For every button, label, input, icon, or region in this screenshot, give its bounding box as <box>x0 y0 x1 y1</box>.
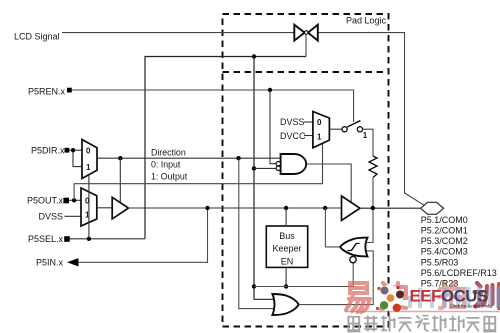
node direction/OR branch <box>236 156 240 160</box>
bubble schmitt enable <box>350 256 356 262</box>
svg-text:P5.3/COM2: P5.3/COM2 <box>421 236 468 246</box>
wire P5OUT to mux <box>69 199 81 201</box>
hysteresis symbol <box>348 243 360 250</box>
svg-text:DVSS: DVSS <box>39 212 64 222</box>
svg-text:1: 1 <box>317 133 322 142</box>
wire DVSS into mux <box>304 121 313 123</box>
watermark logo balls <box>376 286 404 312</box>
wire driver to pad <box>360 207 421 209</box>
watermark bottom row char 8 <box>466 318 479 332</box>
svg-text:1: Output: 1: Output <box>151 172 188 182</box>
svg-text:EN: EN <box>281 256 294 266</box>
watermark bottom row char 4 <box>398 318 411 332</box>
wire P5IN line <box>78 208 208 262</box>
wire OR output feedback <box>299 251 373 305</box>
svg-text:P5SEL.x: P5SEL.x <box>28 234 64 244</box>
dashed outer box (pad logic boundary) <box>223 14 389 327</box>
node P5IN tap <box>205 206 209 210</box>
svg-text:Bus: Bus <box>279 231 295 241</box>
node EN line <box>284 284 288 288</box>
watermark logo background <box>377 285 403 311</box>
pad symbol (pin hexagon) <box>421 202 444 214</box>
wire DVSS to mux <box>65 215 82 217</box>
wire AND input from P5SEL <box>254 167 276 169</box>
svg-text:P5.6/LCDREF/R13: P5.6/LCDREF/R13 <box>421 268 497 278</box>
wire mux select vertical <box>88 175 90 239</box>
transmission gate (LCD switch) <box>294 25 318 41</box>
node P5SEL select <box>87 237 91 241</box>
wire DVCC into mux <box>304 135 313 137</box>
wire P5REN line <box>72 90 354 122</box>
buffer P5OUT (small triangle) <box>112 197 128 219</box>
wire mux output to switch <box>329 128 342 130</box>
svg-text:1: 1 <box>86 163 91 172</box>
node direction/buffer enable <box>118 156 122 160</box>
mux P5OUT (output mux) <box>81 188 97 226</box>
watermark big char 3 <box>440 282 465 308</box>
node bus keeper tap <box>284 206 288 210</box>
wire bus keeper input <box>285 208 287 226</box>
svg-text:P5.4/COM3: P5.4/COM3 <box>421 247 468 257</box>
watermark bottom row char 1 <box>347 317 360 332</box>
svg-text:0: 0 <box>86 147 91 156</box>
wire LCD signal line <box>62 33 424 206</box>
wire P5SEL vertical x=254 down to OR gate <box>254 57 275 300</box>
watermark bottom row char 2 <box>364 316 377 332</box>
svg-text:P5OUT.x: P5OUT.x <box>27 195 64 205</box>
svg-text:P5DIR.x: P5DIR.x <box>31 145 65 155</box>
dashed divider line <box>223 71 389 73</box>
svg-text:0: 0 <box>317 118 322 127</box>
pad square P5REN.x <box>67 88 72 93</box>
wire pad drive line (buffer to driver) <box>128 207 341 209</box>
resistor R1 (pull resistor) <box>369 156 377 178</box>
mux pull-up/down select <box>313 112 330 148</box>
node feedback tap <box>323 206 327 210</box>
watermark big char 1 <box>346 283 370 312</box>
node P5OUT branch <box>72 198 76 202</box>
wire direction to OR gate <box>239 158 275 308</box>
node P5SEL/AND input <box>252 166 256 170</box>
svg-text:DVCC: DVCC <box>280 131 306 141</box>
pad square P5OUT.x <box>63 198 69 204</box>
svg-text:Click for Acquire Info: Click for Acquire Info <box>450 304 493 309</box>
wire buffer enable <box>119 158 121 203</box>
node P5DIR <box>71 148 75 152</box>
wire EN line to schmitt bubble <box>254 263 353 287</box>
svg-text:0: Input: 0: Input <box>151 160 181 170</box>
bubble AND input 3 <box>276 166 280 170</box>
schmitt trigger U3 (bus keeper feedback, facing left) <box>340 238 368 257</box>
node P5REN branch <box>268 88 272 92</box>
svg-text:Keeper: Keeper <box>272 244 301 254</box>
buffer output driver <box>342 196 360 220</box>
svg-text:LCD Signal: LCD Signal <box>14 31 60 41</box>
wire AND output to driver enable <box>307 164 352 203</box>
watermark bottom row char 6 <box>432 316 446 332</box>
svg-text:P5.1/COM0: P5.1/COM0 <box>421 215 468 225</box>
watermark big char 4 <box>475 283 500 308</box>
switch S1 (resistor enable) <box>342 121 363 132</box>
wire direction line <box>97 157 281 159</box>
pad square P5SEL.x <box>64 236 70 242</box>
svg-text:P5.5/R03: P5.5/R03 <box>421 257 459 267</box>
node pad junction <box>371 206 375 210</box>
wire bus keeper EN output <box>285 267 287 286</box>
wire transmission gate control <box>305 35 307 57</box>
svg-text:P5IN.x: P5IN.x <box>36 257 64 267</box>
wire P5DIR to mux inputs <box>69 150 82 166</box>
watermark bottom row char 9 <box>483 317 496 332</box>
watermark bottom row char 3 <box>381 316 395 332</box>
wire switch to resistor <box>363 129 374 156</box>
box Bus Keeper <box>266 226 307 267</box>
bubble AND input 2 <box>276 162 280 166</box>
svg-text:1: 1 <box>363 131 368 140</box>
or-gate U2 (driver enable logic) <box>272 294 298 315</box>
wire P5OUT to pull mux select <box>74 143 322 200</box>
wire resistor to pad <box>372 178 374 209</box>
wire P5REN to AND bubble <box>270 90 276 164</box>
wire P5SEL line <box>70 238 145 240</box>
mux P5DIR (direction mux) <box>82 140 97 179</box>
svg-text:P5REN.x: P5REN.x <box>28 86 66 96</box>
node on P5SEL branch x=254 <box>252 54 256 58</box>
watermark bottom row char 5 <box>415 316 429 332</box>
watermark bottom row char 7 <box>449 316 463 332</box>
watermark big char 2 <box>381 283 406 309</box>
wire schmitt output feedback <box>325 208 340 247</box>
wire P5SEL branch to gate (y=56.5) <box>145 57 306 239</box>
wire mux2 output to buffer <box>97 207 112 209</box>
watermark underline <box>345 311 500 313</box>
svg-text:Pad Logic: Pad Logic <box>346 15 387 25</box>
svg-text:DVSS: DVSS <box>280 117 305 127</box>
wire schmitt top input from pad <box>366 208 373 243</box>
svg-text:Direction: Direction <box>151 147 186 157</box>
svg-text:P5.2/COM1: P5.2/COM1 <box>421 225 468 235</box>
and-gate U1 (pull resistor enable) <box>281 154 307 174</box>
arrow P5IN.x <box>67 258 79 266</box>
watermark EEFOCUS text <box>408 286 500 308</box>
pad square P5DIR.x <box>65 148 70 153</box>
node P5SEL/EN line <box>252 284 256 288</box>
